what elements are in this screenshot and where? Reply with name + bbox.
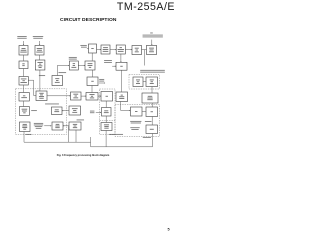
label tx mute: [39, 74, 45, 77]
node label modulation terminal: [17, 36, 26, 39]
label above H: [77, 119, 84, 122]
wire PB-A: [47, 95, 71, 96]
svg-text:5: 5: [167, 228, 169, 232]
wire bus step: [90, 142, 92, 147]
label 10.695: [104, 60, 112, 63]
wire lc2 up: [23, 101, 25, 107]
unit dashed carrier D2: [100, 89, 116, 135]
wire F to B2x: [96, 112, 102, 113]
wire E-F: [62, 110, 69, 111]
wire S-connector into B10: [57, 65, 69, 76]
block cpu H: [69, 122, 81, 130]
svg-text:CIRCUIT DESCRIPTION: CIRCUIT DESCRIPTION: [60, 17, 117, 23]
block carrier CR: [101, 123, 112, 131]
wire G-H: [63, 125, 69, 126]
block tx filter B5: [116, 45, 125, 54]
wire label arrow to LPF2: [112, 66, 116, 67]
wire B-C: [98, 95, 101, 96]
wire GH junction drop: [68, 126, 70, 142]
block lc2: [20, 107, 30, 116]
unit dashed PLL D1: [16, 89, 67, 135]
wire L-R: [142, 111, 146, 113]
label between F and B2x: [90, 111, 94, 113]
wire C-B2x: [105, 101, 107, 108]
wire A-B: [81, 95, 86, 96]
block ref div F: [69, 106, 81, 115]
wire B5-B6: [125, 49, 132, 50]
block drive amp B6: [132, 46, 142, 55]
wire amp2-B: [91, 86, 93, 93]
wire VCO up: [23, 85, 25, 93]
svg-text:TM-255A/E: TM-255A/E: [117, 1, 175, 13]
wire B5-LPF2: [120, 54, 121, 62]
label mic left 2: [130, 127, 139, 129]
wire D to L: [121, 102, 131, 112]
block lpf2: [116, 62, 127, 70]
wire B3-B4: [97, 49, 102, 50]
wire B1-B8: [23, 55, 25, 61]
block alc B10: [69, 61, 78, 70]
block phase det E: [52, 107, 63, 115]
unit dashed final unit D5: [129, 75, 160, 90]
label ref text: [34, 123, 43, 129]
block mic amp MIC: [146, 125, 158, 134]
block lc3: [20, 122, 31, 132]
label above MIC: [145, 120, 152, 123]
wire ANT to B7: [151, 40, 152, 46]
wire into G: [44, 125, 51, 126]
wire B4-B5: [110, 49, 116, 50]
block prescaler PB: [36, 91, 47, 101]
block rf amp D5b: [146, 77, 158, 87]
block tx amp B4: [101, 45, 110, 54]
wire H drop: [75, 130, 77, 142]
wire D5a-D5b: [143, 81, 146, 83]
svg-text:Fig. 3 Frequency processing bl: Fig. 3 Frequency processing block diagra…: [57, 153, 110, 157]
block bpf D: [116, 92, 128, 102]
wire LC1 to PB path: [28, 80, 36, 95]
block mix L: [131, 107, 143, 116]
block det R: [146, 107, 158, 117]
label tx mix: [80, 45, 86, 48]
label mic left 1: [130, 121, 141, 123]
block shift reg G: [52, 122, 63, 130]
wire D5b-MidR: [151, 87, 153, 94]
block xtal B2x: [102, 108, 112, 117]
wire bus L2: [91, 146, 153, 148]
wire B8-LC1: [23, 69, 25, 77]
block if amp MidR: [142, 93, 158, 103]
wire B2-B9: [39, 55, 41, 60]
block vco: [19, 93, 29, 102]
wire drop from B6-B7 junction: [143, 50, 145, 66]
label above B12: [58, 71, 66, 74]
block final B7: [147, 45, 157, 54]
block rx mix B11: [85, 61, 95, 70]
label tx rx range: [140, 70, 165, 73]
label above B10: [69, 57, 77, 59]
block tx if amp B12: [52, 76, 63, 86]
label right of lc2: [31, 109, 37, 112]
wire LPF2-D: [121, 70, 123, 92]
label under D2: [109, 133, 123, 136]
label pll unit: [45, 103, 59, 106]
block power amp D5a: [133, 77, 143, 87]
block buffer A: [71, 92, 82, 100]
wire B9-PB: [39, 70, 41, 91]
label right of amp2: [99, 79, 104, 81]
block mic amp B1: [19, 46, 28, 56]
wire lc3 down: [23, 132, 25, 143]
wire stub up at 90: [90, 137, 92, 142]
node ANT: [150, 32, 153, 35]
block doubler B: [86, 93, 98, 101]
block amp2: [87, 77, 98, 86]
block left col LC1: [19, 77, 28, 86]
wire R-MIC: [151, 117, 153, 126]
unit dashed divider inside D2: [100, 120, 116, 122]
wire MidR-R: [151, 103, 153, 107]
block lpf B8: [19, 61, 28, 69]
wire B10-B11: [78, 65, 85, 66]
block tx mix B3: [89, 44, 97, 53]
label under D4: [143, 136, 151, 139]
block hetero C: [101, 92, 113, 102]
wire CR drop: [105, 131, 107, 147]
wire B6-B7: [142, 49, 147, 51]
wire bus L1: [24, 141, 91, 143]
label antenna frequencies: [143, 35, 163, 38]
node label station tx terminal: [33, 36, 43, 39]
block tone amp B2: [35, 46, 44, 56]
wire B3-B11: [91, 53, 93, 61]
wire arrow right of amp2: [99, 82, 105, 83]
wire label tick to B3: [87, 47, 89, 49]
block limiter B9: [35, 60, 45, 70]
wire B11-amp2: [91, 70, 93, 77]
unit dashed mic unit D4: [115, 105, 160, 137]
wire arrow into B1: [23, 41, 24, 45]
wire arrow into B2: [39, 41, 40, 45]
wire B2x-CR: [105, 116, 107, 123]
label on lc3 line: [26, 133, 32, 136]
wire MIC drop: [152, 134, 154, 147]
